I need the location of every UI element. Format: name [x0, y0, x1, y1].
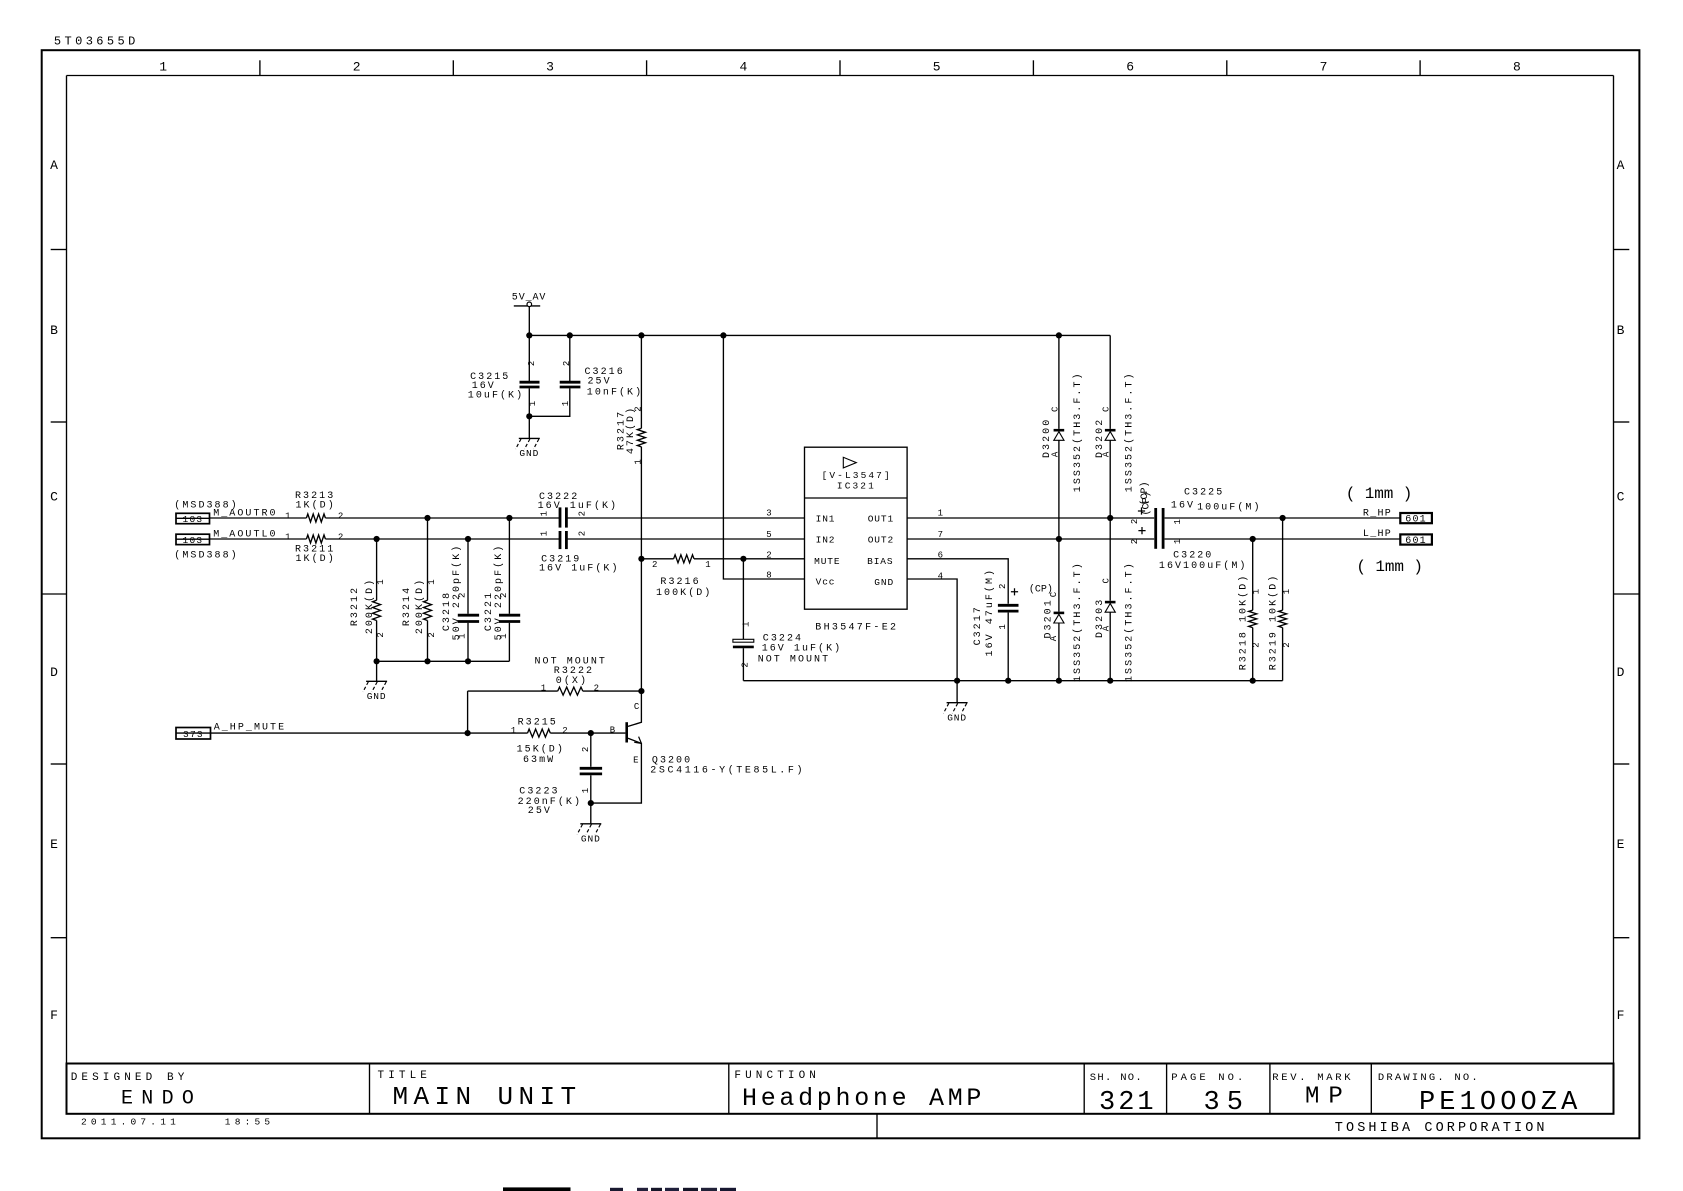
capacitor C3216 — [529, 335, 643, 416]
svg-text:2: 2 — [998, 584, 1008, 589]
junction (743,559) — [740, 556, 746, 562]
wire Vcc drop to IC pin 8 — [723, 335, 804, 579]
svg-text:1: 1 — [499, 633, 509, 638]
svg-text:5T03655D: 5T03655D — [54, 35, 139, 49]
svg-text:Vcc: Vcc — [816, 577, 836, 588]
junction (377,539) — [374, 536, 380, 542]
svg-text:35: 35 — [1204, 1088, 1250, 1118]
svg-text:1: 1 — [705, 560, 710, 570]
svg-text:1SS352(TH3.F.T): 1SS352(TH3.F.T) — [1124, 561, 1136, 682]
svg-text:103: 103 — [183, 514, 204, 525]
svg-text:( 1mm ): ( 1mm ) — [1346, 485, 1413, 503]
svg-text:R3215: R3215 — [518, 718, 558, 729]
svg-text:3: 3 — [546, 60, 554, 75]
wire OUT2 (L_HP) — [907, 538, 1400, 540]
title block cell DRAWING.NO. / PE1000ZA — [1378, 1072, 1582, 1118]
svg-text:1SS352(TH3.F.T): 1SS352(TH3.F.T) — [1072, 561, 1084, 682]
svg-text:103: 103 — [183, 535, 204, 546]
svg-text:50V 220pF(K): 50V 220pF(K) — [493, 544, 505, 641]
svg-text:8: 8 — [1513, 60, 1521, 75]
svg-text:D3200: D3200 — [1042, 418, 1053, 458]
bottom edge artifacts — [503, 1187, 736, 1191]
junction (1253,681) — [1250, 678, 1256, 684]
svg-text:IC321: IC321 — [837, 481, 876, 492]
svg-text:(MSD388): (MSD388) — [174, 550, 238, 562]
resistor R3222 (not mount) — [535, 657, 607, 696]
resistor R3212 — [350, 539, 386, 661]
ground (below C3223) — [577, 824, 601, 845]
capacitor C3223 — [518, 733, 603, 824]
title block cell DESIGNED BY / ENDO — [71, 1072, 203, 1111]
svg-text:1: 1 — [581, 788, 591, 793]
svg-text:2: 2 — [562, 726, 567, 736]
diode D3203 — [1095, 518, 1136, 682]
svg-text:A_HP_MUTE: A_HP_MUTE — [214, 722, 286, 733]
svg-text:2: 2 — [581, 747, 591, 752]
svg-text:E: E — [1617, 837, 1625, 852]
wire IC GND pin 4 — [907, 579, 957, 703]
svg-text:GND: GND — [581, 834, 601, 845]
capacitor C3224 (not mount) — [733, 559, 842, 681]
svg-text:(CP): (CP) — [1139, 481, 1151, 505]
svg-text:1: 1 — [540, 531, 550, 536]
svg-text:2: 2 — [458, 593, 468, 598]
svg-text:2: 2 — [652, 560, 657, 570]
ground (left bus) — [363, 681, 387, 702]
resistor R3214 — [402, 518, 437, 661]
svg-text:1: 1 — [742, 622, 752, 627]
svg-text:2: 2 — [562, 361, 572, 366]
junction (428,661) — [424, 658, 430, 664]
svg-text:2: 2 — [766, 550, 771, 560]
( 1mm ) lower note — [1356, 558, 1423, 576]
svg-text:1: 1 — [511, 726, 516, 736]
svg-text:47K(D): 47K(D) — [625, 406, 637, 454]
capacitor C3225 — [1130, 481, 1262, 548]
svg-text:IN1: IN1 — [816, 513, 836, 524]
svg-text:63mW: 63mW — [523, 755, 555, 766]
junction (957,681) — [954, 678, 960, 684]
resistor R3218 — [1237, 539, 1261, 681]
svg-text:16V100uF(M): 16V100uF(M) — [1159, 560, 1248, 572]
ground (IC pin 4) — [943, 703, 967, 724]
svg-text:2: 2 — [338, 511, 343, 521]
diode D3200 — [1042, 335, 1084, 539]
svg-text:2: 2 — [594, 683, 599, 693]
wire IN2 — [210, 538, 805, 540]
svg-text:B: B — [610, 725, 616, 735]
svg-text:C: C — [1102, 578, 1112, 584]
svg-text:2: 2 — [1282, 642, 1292, 647]
capacitor C3222 — [538, 492, 619, 527]
junction (641,691) — [638, 688, 644, 694]
svg-text:C: C — [634, 702, 640, 712]
svg-text:PE1OOOZA: PE1OOOZA — [1419, 1088, 1581, 1118]
resistor R3217 — [616, 335, 645, 558]
svg-text:E: E — [633, 756, 638, 766]
net name M_AOUTL0 — [213, 529, 277, 540]
svg-text:D3203: D3203 — [1095, 598, 1106, 638]
svg-text:C: C — [1050, 406, 1060, 412]
svg-text:1K(D): 1K(D) — [296, 553, 336, 565]
svg-text:3: 3 — [766, 509, 771, 519]
row letters right — [1617, 158, 1625, 1023]
row ticks left — [42, 250, 67, 938]
resistor R3211 — [285, 532, 343, 565]
svg-text:MAIN UNIT: MAIN UNIT — [393, 1082, 582, 1112]
wire ground bus (left) — [377, 661, 510, 681]
svg-text:C3223: C3223 — [519, 786, 559, 797]
junction (1059,539) — [1056, 536, 1062, 542]
svg-text:IN2: IN2 — [816, 535, 836, 546]
svg-text:1: 1 — [458, 633, 468, 638]
capacitor C3219 — [539, 531, 620, 575]
svg-text:601: 601 — [1405, 515, 1427, 526]
wire 5V rail — [529, 334, 1110, 336]
net name R_HP — [1363, 508, 1392, 519]
svg-text:50V 220pF(K): 50V 220pF(K) — [451, 544, 463, 641]
svg-text:1: 1 — [1282, 589, 1292, 594]
junction (468,733) — [465, 730, 471, 736]
junction (428,518) — [424, 515, 430, 521]
junction (1110,681) — [1107, 678, 1113, 684]
junction (591,733) — [588, 730, 594, 736]
svg-text:15K(D): 15K(D) — [517, 743, 565, 755]
svg-text:F: F — [1617, 1008, 1625, 1023]
svg-text:1K(D): 1K(D) — [296, 500, 336, 512]
svg-text:R3218 10K(D): R3218 10K(D) — [1237, 574, 1249, 671]
svg-text:373: 373 — [183, 729, 204, 740]
junction (591,803) — [588, 800, 594, 806]
title block cell TITLE / MAIN UNIT — [378, 1070, 582, 1112]
svg-text:1: 1 — [561, 401, 571, 406]
svg-text:1: 1 — [1173, 519, 1183, 524]
junction (468,539) — [465, 536, 471, 542]
svg-text:( 1mm ): ( 1mm ) — [1356, 558, 1423, 576]
svg-text:TOSHIBA CORPORATION: TOSHIBA CORPORATION — [1335, 1121, 1548, 1136]
net name L_HP — [1363, 529, 1392, 540]
svg-text:16V 1uF(K): 16V 1uF(K) — [762, 643, 843, 655]
column numbers — [159, 60, 1521, 75]
svg-text:TITLE: TITLE — [378, 1070, 432, 1082]
svg-text:1SS352(TH3.F.T): 1SS352(TH3.F.T) — [1124, 371, 1136, 492]
svg-text:PAGE NO.: PAGE NO. — [1171, 1072, 1246, 1084]
svg-text:OUT2: OUT2 — [868, 535, 894, 546]
resistor R3213 — [285, 491, 343, 522]
resistor R3219 — [1268, 518, 1293, 681]
diode D3201 — [1029, 539, 1084, 682]
svg-text:R_HP: R_HP — [1363, 508, 1392, 519]
svg-text:C: C — [1049, 591, 1059, 597]
svg-text:1: 1 — [285, 532, 290, 542]
svg-text:16V 1uF(K): 16V 1uF(K) — [539, 562, 620, 574]
svg-text:GND: GND — [367, 691, 387, 702]
svg-text:B: B — [50, 323, 58, 338]
drawing number label 5T03655D — [54, 35, 139, 49]
diode D3202 — [1095, 335, 1136, 518]
junction (1283,518) — [1280, 515, 1286, 521]
svg-text:1: 1 — [528, 401, 538, 406]
svg-text:2: 2 — [633, 406, 643, 411]
svg-text:MUTE: MUTE — [814, 556, 840, 567]
row ticks right — [1614, 250, 1640, 938]
capacitor C3220 — [1130, 527, 1248, 572]
svg-text:6: 6 — [1126, 60, 1134, 75]
svg-text:C3225: C3225 — [1184, 488, 1224, 499]
net name M_AOUTR0 — [213, 508, 277, 519]
svg-text:2: 2 — [1252, 642, 1262, 647]
svg-text:1: 1 — [159, 60, 167, 75]
connector box 373 — [176, 728, 211, 740]
svg-text:C3217: C3217 — [973, 605, 984, 645]
row letters left — [50, 158, 58, 1023]
transistor Q3200 — [591, 691, 805, 803]
svg-text:C: C — [1617, 489, 1625, 504]
svg-text:D3201: D3201 — [1043, 598, 1054, 638]
svg-text:1: 1 — [938, 509, 943, 519]
junction (468,661) — [465, 658, 471, 664]
svg-text:100uF(M): 100uF(M) — [1197, 501, 1261, 513]
svg-text:C: C — [1102, 406, 1112, 412]
net label (MSD388) lower — [174, 550, 238, 562]
connector box 103 (M_AOUTL0) — [176, 534, 210, 546]
svg-text:R3212: R3212 — [350, 586, 361, 626]
svg-text:1: 1 — [376, 579, 386, 584]
svg-text:2: 2 — [427, 632, 437, 637]
capacitor C3215 — [468, 335, 540, 416]
svg-text:[V-L3547]: [V-L3547] — [822, 470, 892, 481]
svg-text:0(X): 0(X) — [556, 675, 588, 687]
svg-text:GND: GND — [947, 713, 967, 724]
svg-text:321: 321 — [1099, 1088, 1157, 1118]
svg-text:100K(D): 100K(D) — [656, 587, 712, 599]
svg-text:F: F — [50, 1008, 58, 1023]
svg-text:5: 5 — [933, 60, 941, 75]
svg-text:1: 1 — [285, 511, 290, 521]
svg-text:REV. MARK: REV. MARK — [1272, 1072, 1353, 1084]
svg-text:R3214: R3214 — [402, 586, 413, 626]
wire mute drop (R3217/R3216 node to Q3200 collector) — [640, 559, 642, 691]
svg-text:BH3547F-E2: BH3547F-E2 — [815, 622, 898, 633]
IC pin numbers right — [938, 509, 943, 582]
title block cell SH.NO. / 321 — [1090, 1072, 1157, 1118]
svg-text:C3220: C3220 — [1173, 551, 1213, 562]
svg-text:4: 4 — [739, 60, 747, 75]
junction (1008,681) — [1005, 678, 1011, 684]
svg-text:DESIGNED BY: DESIGNED BY — [71, 1072, 189, 1084]
svg-text:2: 2 — [577, 531, 587, 536]
svg-text:1: 1 — [633, 459, 643, 464]
junction (1110,518) — [1107, 515, 1113, 521]
connector box 103 (M_AOUTR0) — [176, 513, 210, 525]
svg-text:2: 2 — [499, 593, 509, 598]
svg-text:1SS352(TH3.F.T): 1SS352(TH3.F.T) — [1072, 371, 1084, 492]
svg-text:1: 1 — [998, 624, 1008, 629]
svg-text:2: 2 — [1130, 519, 1140, 524]
svg-text:E: E — [50, 837, 58, 852]
capacitor C3218 — [442, 539, 479, 661]
svg-text:2: 2 — [527, 361, 537, 366]
wire R3222 branch — [468, 691, 642, 733]
svg-text:2: 2 — [1130, 539, 1140, 544]
wire OUT1 (R_HP) — [907, 517, 1400, 519]
wire BIAS to C3217 — [907, 559, 1008, 604]
junction (1059,335) — [1056, 332, 1062, 338]
junction (529,335) — [526, 332, 532, 338]
resistor R3216 — [652, 555, 712, 599]
op-amp IC321 BH3547F-E2 — [805, 447, 908, 633]
svg-text:601: 601 — [1405, 536, 1427, 547]
power symbol 5V_AV — [512, 292, 547, 335]
svg-text:200K(D): 200K(D) — [364, 578, 376, 634]
svg-text:MP: MP — [1305, 1084, 1352, 1111]
svg-text:10uF(K): 10uF(K) — [468, 389, 524, 401]
junction (570,335) — [567, 332, 573, 338]
svg-text:25V: 25V — [588, 377, 612, 388]
connector box 601 (L_HP) — [1400, 534, 1432, 547]
( 1mm ) upper note — [1346, 485, 1413, 503]
svg-text:7: 7 — [1320, 60, 1328, 75]
svg-text:10nF(K): 10nF(K) — [587, 386, 643, 398]
svg-text:2: 2 — [741, 662, 751, 667]
title block cell REV.MARK / MP — [1272, 1072, 1353, 1111]
ground (below C3215) — [516, 438, 540, 459]
svg-text:NOT MOUNT: NOT MOUNT — [758, 654, 830, 665]
capacitor C3217 — [973, 568, 1019, 681]
junction (509,518) — [506, 515, 512, 521]
junction (529,416) — [526, 413, 532, 419]
svg-text:B: B — [1617, 323, 1625, 338]
junction (641,335) — [638, 332, 644, 338]
wire MUTE — [641, 558, 804, 560]
junction (1059,681) — [1056, 678, 1062, 684]
svg-text:2: 2 — [338, 532, 343, 542]
svg-text:16V 1uF(K): 16V 1uF(K) — [538, 500, 619, 512]
svg-text:2: 2 — [376, 632, 386, 637]
wire ground bus (right) — [743, 680, 1282, 682]
TOSHIBA CORPORATION — [1335, 1121, 1548, 1136]
wire to ground from C3215/C3216 — [528, 416, 530, 438]
title block cell PAGE NO. / 35 — [1171, 1072, 1250, 1118]
capacitor C3221 — [484, 518, 520, 661]
junction (641,559) — [638, 556, 644, 562]
net name A_HP_MUTE — [214, 722, 286, 733]
svg-text:2011.07.11: 2011.07.11 — [81, 1116, 180, 1127]
svg-text:D3202: D3202 — [1095, 418, 1106, 458]
svg-text:1: 1 — [541, 683, 546, 693]
connector box 601 (R_HP) — [1400, 513, 1432, 526]
svg-text:D: D — [50, 665, 58, 680]
wire IN1 — [210, 517, 805, 519]
svg-text:DRAWING. NO.: DRAWING. NO. — [1378, 1072, 1480, 1084]
svg-text:FUNCTION: FUNCTION — [734, 1070, 820, 1082]
date stamp — [81, 1116, 274, 1127]
svg-text:R3219 10K(D): R3219 10K(D) — [1268, 574, 1280, 671]
IC pin numbers left — [766, 509, 771, 581]
svg-text:D: D — [1617, 665, 1625, 680]
svg-text:BIAS: BIAS — [867, 556, 893, 567]
svg-text:8: 8 — [766, 571, 771, 581]
svg-text:25V: 25V — [528, 806, 552, 817]
svg-text:2SC4116-Y(TE85L.F): 2SC4116-Y(TE85L.F) — [650, 765, 805, 777]
svg-text:18:55: 18:55 — [225, 1116, 275, 1127]
svg-text:200K(D): 200K(D) — [414, 578, 426, 634]
wire A_HP_MUTE — [211, 732, 626, 734]
svg-text:ENDO: ENDO — [121, 1087, 202, 1110]
resistor R3215 — [511, 718, 568, 766]
svg-text:SH. NO.: SH. NO. — [1090, 1072, 1143, 1084]
svg-text:16V: 16V — [1171, 500, 1195, 511]
svg-text:C: C — [50, 489, 58, 504]
svg-text:R3216: R3216 — [660, 577, 700, 588]
svg-text:OUT1: OUT1 — [868, 513, 894, 524]
svg-text:16V 47uF(M): 16V 47uF(M) — [984, 568, 996, 657]
svg-text:1: 1 — [427, 579, 437, 584]
svg-text:A: A — [1617, 158, 1625, 173]
junction (723,335) — [720, 332, 726, 338]
svg-text:2: 2 — [353, 60, 361, 75]
svg-text:1: 1 — [1173, 539, 1183, 544]
junction (1253,539) — [1250, 536, 1256, 542]
title block cell FUNCTION / Headphone AMP — [734, 1070, 985, 1113]
svg-text:A: A — [50, 158, 58, 173]
svg-text:L_HP: L_HP — [1363, 529, 1392, 540]
svg-text:1: 1 — [1252, 589, 1262, 594]
title block frame — [67, 1064, 1614, 1139]
column ticks — [260, 60, 1420, 75]
svg-text:GND: GND — [519, 448, 539, 459]
svg-text:GND: GND — [874, 577, 894, 588]
svg-text:5: 5 — [766, 530, 771, 540]
junction (377,661) — [374, 658, 380, 664]
net label (MSD388) upper — [174, 500, 238, 512]
svg-text:4: 4 — [938, 572, 943, 582]
svg-text:Headphone AMP: Headphone AMP — [742, 1084, 985, 1113]
